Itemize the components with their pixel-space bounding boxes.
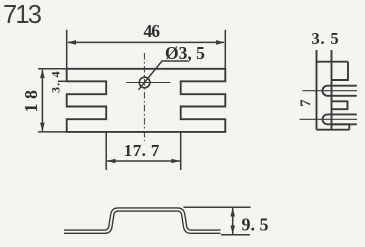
svg-text:17. 7: 17. 7 bbox=[124, 141, 160, 160]
svg-text:713: 713 bbox=[3, 1, 42, 29]
svg-text:7: 7 bbox=[298, 99, 314, 107]
svg-text:3. 4: 3. 4 bbox=[48, 70, 62, 93]
svg-text:9. 5: 9. 5 bbox=[242, 215, 269, 235]
svg-text:Ø3, 5: Ø3, 5 bbox=[165, 43, 205, 63]
svg-text:3. 5: 3. 5 bbox=[312, 29, 340, 48]
svg-text:18: 18 bbox=[21, 86, 41, 113]
svg-text:46: 46 bbox=[143, 21, 160, 41]
